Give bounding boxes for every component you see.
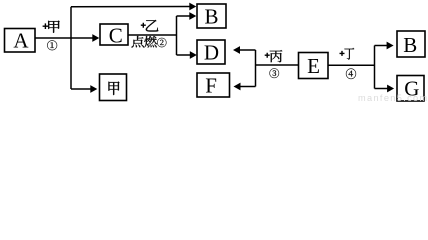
svg-text:A: A xyxy=(13,28,29,52)
wire branch leg to B top xyxy=(177,15,191,17)
label circled 4 xyxy=(346,68,356,78)
arrowhead into G xyxy=(387,85,394,93)
wire E to right branch xyxy=(328,64,375,66)
label jia inside box xyxy=(108,82,119,96)
arrowhead into D right (pointing left) xyxy=(233,46,240,54)
wire leg to G xyxy=(375,88,388,90)
label bing of +bing (reaction 3) xyxy=(270,50,283,62)
svg-text:B: B xyxy=(403,33,417,57)
wire leg to D right xyxy=(240,49,256,51)
box D xyxy=(197,40,225,65)
box A xyxy=(5,28,36,52)
svg-text:E: E xyxy=(307,54,320,78)
svg-text:C: C xyxy=(109,24,123,48)
box E xyxy=(299,53,329,79)
box G xyxy=(397,76,424,102)
box B top xyxy=(197,4,226,29)
wire junction vertical from top rail to jia leg xyxy=(70,7,72,89)
arrowhead into F right (pointing left) xyxy=(234,83,241,91)
label plus sign of +ding xyxy=(340,51,345,56)
svg-text:D: D xyxy=(204,41,219,65)
wire leg to F right xyxy=(240,86,255,88)
wire A to C xyxy=(35,37,93,39)
wire right branch vertical xyxy=(374,46,376,89)
wire C output xyxy=(128,34,177,36)
label plus sign of +jia xyxy=(43,23,49,29)
label jia of +jia (reaction 1) xyxy=(48,21,60,33)
arrowhead into D left xyxy=(190,51,197,59)
arrowhead into C xyxy=(92,34,99,42)
wire E to left branch xyxy=(256,64,299,66)
wire C branch vertical xyxy=(176,16,178,55)
arrowhead into jia box xyxy=(90,85,97,93)
arrowhead into B top (from reaction 1) xyxy=(189,3,196,11)
box B right xyxy=(397,31,425,57)
box F xyxy=(197,73,230,98)
label circled 1 xyxy=(47,40,57,50)
wire down-leg to jia box xyxy=(71,88,91,90)
wire branch leg to D xyxy=(177,54,191,56)
box C xyxy=(100,24,128,48)
svg-text:F: F xyxy=(205,74,217,98)
label ding of +ding (reaction 4) xyxy=(344,48,354,60)
box jia (bottom left) xyxy=(100,74,127,101)
label dian of dianran xyxy=(131,36,144,48)
label circled 3 xyxy=(270,68,280,78)
svg-text:manfen5.com: manfen5.com xyxy=(358,93,428,103)
label yi of +yi (reaction 2) xyxy=(146,20,159,32)
arrowhead into B right xyxy=(387,42,394,50)
arrowhead into B top (from reaction 2) xyxy=(189,12,196,20)
svg-text:B: B xyxy=(204,5,218,29)
label ran of dianran xyxy=(144,36,157,47)
label plus sign of +yi xyxy=(141,23,146,28)
wire top rail to B xyxy=(71,6,190,8)
label plus sign of +bing xyxy=(265,53,270,58)
wire leg to B right xyxy=(375,45,388,47)
label circled 2 xyxy=(157,38,166,47)
wire left branch vertical xyxy=(255,50,257,87)
